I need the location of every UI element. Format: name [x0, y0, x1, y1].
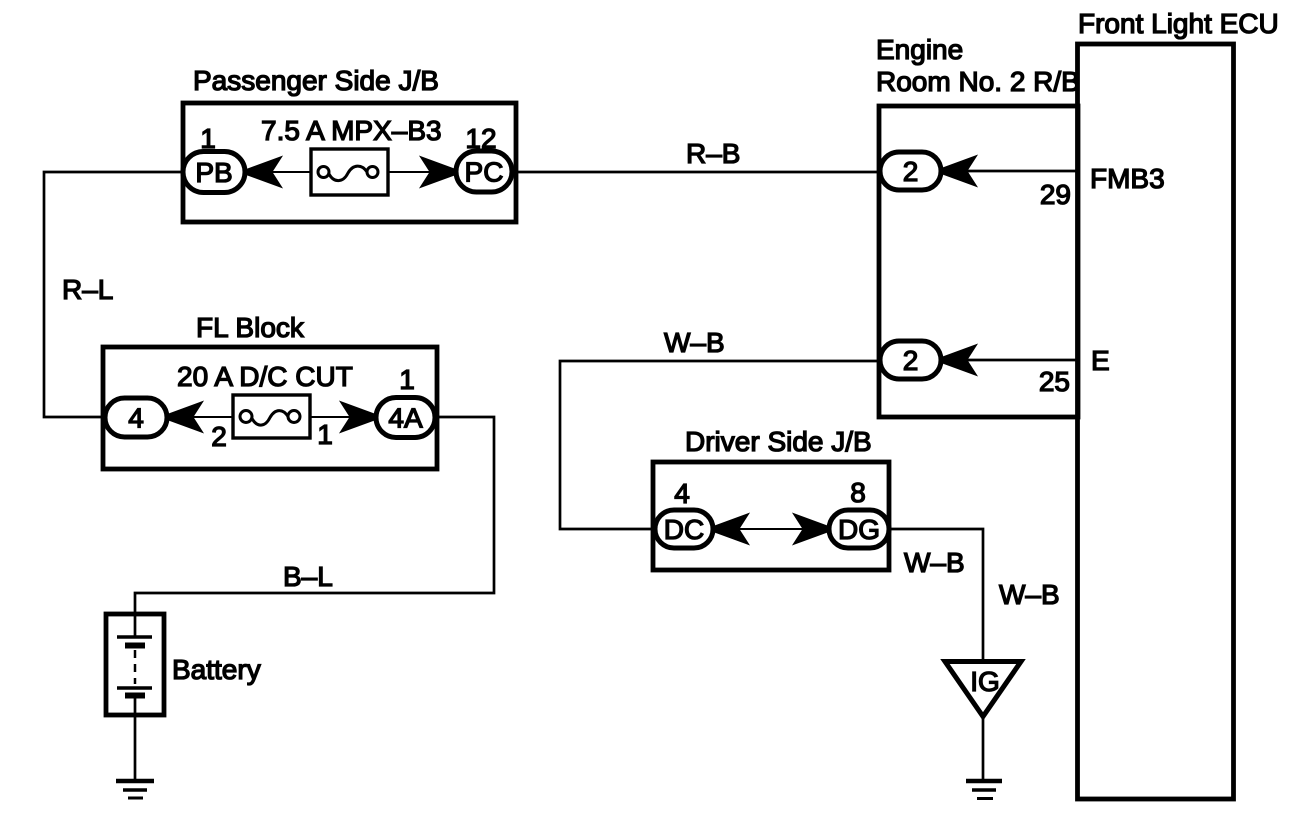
wire inside FL Block	[167, 416, 376, 418]
relay block: Engine Room No. 2 R/B	[879, 106, 1078, 417]
svg-text:DG: DG	[838, 514, 880, 545]
arrow at DG	[795, 515, 828, 543]
wire pin25 to Front Light ECU E	[941, 359, 1078, 362]
svg-text:8: 8	[850, 477, 866, 508]
svg-text:1: 1	[200, 123, 216, 154]
svg-text:4A: 4A	[388, 403, 423, 434]
connector DC pin 4	[655, 510, 713, 548]
arrow at connector 2 upper	[942, 157, 975, 185]
svg-text:Front Light ECU: Front Light ECU	[1078, 8, 1279, 39]
svg-text:7.5 A MPX–B3: 7.5 A MPX–B3	[261, 115, 442, 146]
svg-text:E: E	[1091, 345, 1110, 376]
wire between DC and DG	[713, 528, 829, 530]
svg-text:Battery: Battery	[172, 654, 261, 685]
svg-text:20 A D/C CUT: 20 A D/C CUT	[177, 361, 353, 392]
junction block: Driver Side J/B	[653, 462, 889, 570]
connector PC pin 12	[456, 151, 512, 192]
junction block: Passenger Side J/B	[183, 103, 516, 222]
svg-text:2: 2	[903, 345, 919, 376]
connector 4A pin 1	[376, 398, 435, 438]
connector 2 (lower, to E)	[880, 341, 941, 379]
connector DG pin 8	[829, 510, 889, 548]
svg-text:4: 4	[128, 403, 144, 434]
svg-text:FMB3: FMB3	[1090, 163, 1165, 194]
wire inside Passenger Side J/B	[246, 171, 456, 173]
svg-text:Engine: Engine	[876, 34, 963, 65]
svg-text:B–L: B–L	[283, 561, 333, 592]
fusible link block: FL Block	[103, 347, 437, 469]
wire pin29 to Front Light ECU FMB3	[941, 170, 1078, 173]
ground (battery)	[116, 781, 154, 798]
svg-text:PB: PB	[195, 157, 232, 188]
svg-text:IG: IG	[970, 666, 1000, 697]
arrow at PC	[422, 158, 455, 186]
svg-text:4: 4	[674, 478, 690, 509]
ECU: Front Light ECU	[1078, 44, 1234, 799]
wire R-L from PB to FL Block pin 4	[44, 172, 185, 417]
svg-text:DC: DC	[664, 514, 704, 545]
wire battery negative to ground	[134, 694, 137, 781]
svg-text:W–B: W–B	[664, 327, 725, 358]
wire R-B from PC to Engine Room No.2 R/B	[512, 171, 880, 174]
svg-text:12: 12	[465, 123, 496, 154]
svg-text:2: 2	[211, 421, 227, 452]
wire W-B from DG down to IG	[888, 529, 983, 662]
arrow at DC	[714, 515, 747, 543]
svg-text:1: 1	[317, 419, 333, 450]
svg-text:2: 2	[903, 156, 919, 187]
svg-text:W–B: W–B	[999, 579, 1060, 610]
wire IG to ground	[982, 715, 985, 781]
svg-text:Driver Side J/B: Driver Side J/B	[685, 426, 872, 457]
ground terminal IG	[945, 662, 1021, 717]
connector 2 (upper, to FMB3)	[880, 152, 941, 190]
svg-text:R–B: R–B	[686, 138, 740, 169]
arrow at PB	[247, 158, 280, 186]
arrow at connector 2 lower	[942, 346, 975, 374]
connector 4 (FL Block)	[105, 398, 167, 437]
svg-text:FL Block: FL Block	[196, 312, 305, 343]
svg-text:25: 25	[1039, 366, 1070, 397]
battery	[106, 614, 164, 715]
svg-text:29: 29	[1040, 179, 1071, 210]
arrow at connector 4A	[342, 403, 375, 431]
ground (IG)	[966, 781, 1002, 799]
svg-text:W–B: W–B	[904, 547, 965, 578]
svg-text:Passenger Side J/B: Passenger Side J/B	[193, 65, 439, 96]
svg-text:R–L: R–L	[62, 274, 113, 305]
arrow at connector 4	[168, 403, 201, 431]
fuse 7.5 A MPX-B3	[311, 149, 388, 195]
wire B-L from FL Block 4A to Battery	[135, 417, 494, 637]
svg-text:PC: PC	[465, 157, 504, 188]
svg-text:Room No. 2 R/B: Room No. 2 R/B	[876, 66, 1080, 97]
fuse 20 A D/C CUT	[233, 395, 310, 438]
connector PB pin 1	[183, 152, 245, 193]
wire W-B from Engine Room pin25 to Driver Side J/B DC	[560, 361, 880, 529]
svg-text:1: 1	[399, 364, 415, 395]
